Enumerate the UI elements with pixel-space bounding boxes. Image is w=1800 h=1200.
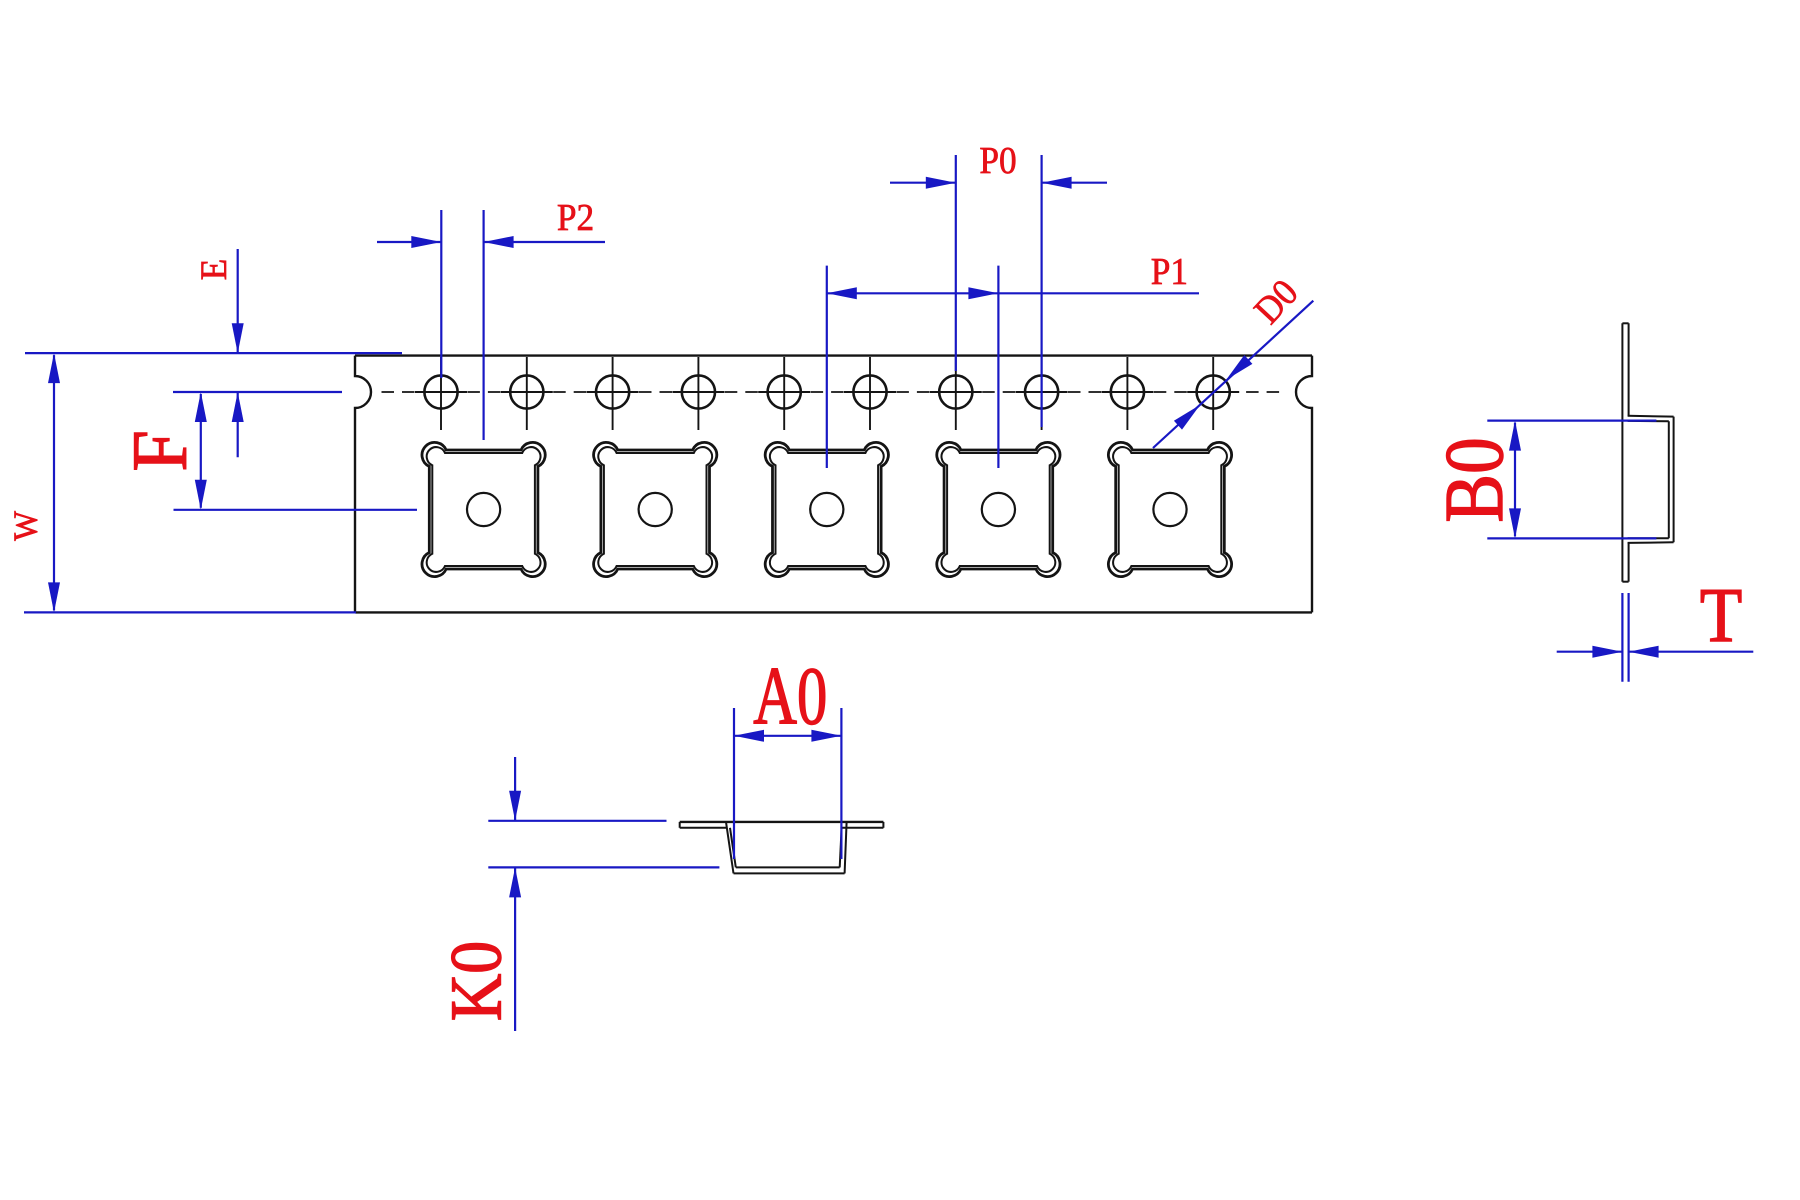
sprocket hole 9 bbox=[1101, 357, 1153, 430]
dimension P0 (sprocket hole pitch) bbox=[890, 139, 1107, 427]
pocket cross-section profile bbox=[680, 822, 884, 874]
svg-text:W: W bbox=[7, 511, 44, 541]
sprocket hole 8 bbox=[1016, 357, 1068, 430]
svg-text:F: F bbox=[117, 430, 203, 471]
sprocket hole 3 bbox=[587, 357, 639, 430]
dimension E (top edge to sprocket centerline) bbox=[193, 249, 244, 457]
svg-text:P2: P2 bbox=[557, 196, 594, 238]
dimension D0 (sprocket hole diameter leader) bbox=[1153, 271, 1313, 448]
dimension P1 (pocket pitch) bbox=[827, 250, 1199, 468]
svg-text:P0: P0 bbox=[979, 139, 1016, 181]
svg-text:P1: P1 bbox=[1151, 250, 1188, 292]
dimension P2 (sprocket hole to pocket center) bbox=[377, 196, 605, 440]
sprocket hole centerline (dashed) bbox=[382, 391, 1280, 393]
svg-text:T: T bbox=[1700, 572, 1742, 657]
dimension F (sprocket centerline to pocket center) bbox=[117, 392, 417, 510]
carrier tape outline with edge notches bbox=[355, 356, 1312, 613]
component pocket 4 bbox=[937, 442, 1060, 576]
sprocket hole 10 bbox=[1187, 357, 1239, 430]
sprocket hole 1 bbox=[415, 357, 467, 430]
component pocket 5 bbox=[1108, 442, 1231, 576]
dimension A0 (pocket width, section) bbox=[734, 649, 841, 859]
svg-text:K0: K0 bbox=[437, 941, 518, 1021]
component pocket 3 bbox=[765, 442, 888, 576]
svg-text:A0: A0 bbox=[753, 649, 827, 742]
sprocket hole 2 bbox=[501, 357, 553, 430]
side view pocket bump bbox=[1628, 416, 1674, 543]
sprocket hole 7 bbox=[930, 357, 982, 430]
svg-text:B0: B0 bbox=[1429, 437, 1522, 522]
dimension W (tape width) bbox=[7, 353, 402, 612]
sprocket hole 5 bbox=[758, 357, 810, 430]
svg-text:E: E bbox=[193, 259, 234, 280]
sprocket hole 6 bbox=[844, 357, 896, 430]
dimension T (tape thickness) bbox=[1557, 572, 1754, 681]
tape side view profile bbox=[1622, 323, 1628, 581]
dimension K0 (pocket depth, section) bbox=[437, 757, 720, 1031]
sprocket hole 4 bbox=[672, 357, 724, 430]
dimension B0 (pocket length, side view) bbox=[1429, 421, 1657, 539]
component pocket 2 bbox=[594, 442, 717, 576]
component pocket 1 bbox=[422, 442, 545, 576]
